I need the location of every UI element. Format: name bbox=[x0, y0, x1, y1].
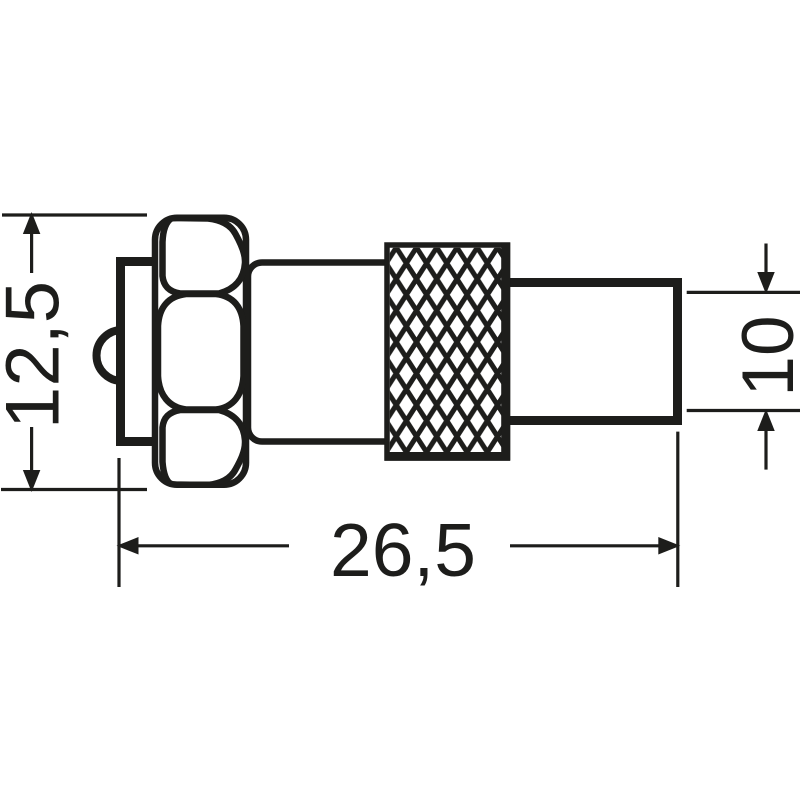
dim 10 top arrow leader bbox=[764, 244, 767, 273]
knurl border right (thick) bbox=[501, 243, 510, 461]
svg-text:10: 10 bbox=[728, 315, 800, 396]
knurl border bbox=[387, 245, 508, 458]
dim 12,5 bottom extension line bbox=[1, 488, 147, 491]
dim 10 top extension line bbox=[687, 291, 800, 294]
dim 10 bottom arrow bbox=[757, 409, 775, 431]
svg-text:26,5: 26,5 bbox=[330, 508, 476, 592]
dim 12,5 top extension line bbox=[2, 213, 147, 216]
hex nut middle facet bbox=[158, 294, 244, 410]
dim 26,5 dimension line right segment bbox=[510, 544, 659, 547]
body between nut and knurl bbox=[248, 263, 400, 442]
barrel (right cylinder) bbox=[500, 283, 678, 421]
dim 12,5 dimension line lower segment bbox=[30, 427, 33, 471]
dim 12,5 bottom arrow bbox=[23, 470, 40, 492]
dim 26,5 right arrow bbox=[658, 537, 680, 555]
svg-text:12,5: 12,5 bbox=[0, 281, 76, 429]
hex nut bottom facet bbox=[163, 410, 246, 485]
dim 12,5 dimension line upper segment bbox=[30, 233, 33, 273]
knurl crosshatch bbox=[390, 248, 506, 456]
knurled sleeve fill bbox=[387, 245, 508, 458]
knurl border bottom (thick) bbox=[385, 452, 511, 461]
dim 10 top arrow bbox=[757, 272, 775, 294]
dim 10 bottom arrow leader bbox=[764, 431, 767, 470]
dim 26,5 dimension line left segment bbox=[139, 544, 290, 547]
dim 26,5 left arrow bbox=[117, 537, 139, 555]
nose bump (center pin boss) bbox=[97, 330, 148, 381]
dim 10 bottom extension line bbox=[687, 409, 800, 412]
flange bbox=[121, 262, 158, 442]
dim 26,5 right extension line bbox=[676, 432, 679, 587]
dim 26,5 left extension line bbox=[117, 458, 120, 587]
dim 12,5 top arrow bbox=[23, 212, 40, 234]
hex nut silhouette bbox=[155, 218, 246, 485]
hex nut top facet bbox=[163, 218, 246, 294]
